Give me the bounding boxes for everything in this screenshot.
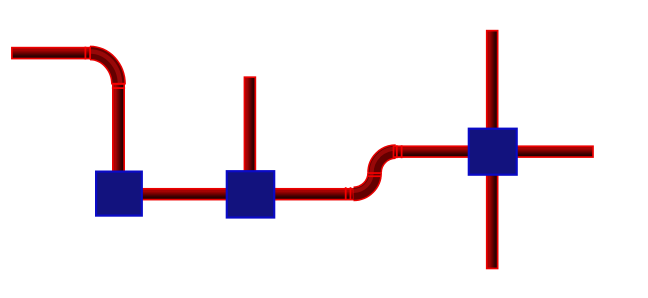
pipe P1 horizontal top-left [12,48,91,59]
joint rings J1 on pipe P1 before elbow E1 [85,47,92,60]
node N2 blue square [227,171,274,217]
joint rings J3 on pipe P5 before elbow E2 [345,187,352,200]
pipe P4 vertical stub above node N2 [244,77,255,187]
node N3 blue square [469,129,517,175]
joint rings J2 on pipe P2 below elbow E1 [112,83,125,89]
elbow E1 top-left [90,52,120,85]
pipe P6 horizontal upper through node N3 to right end [394,146,594,157]
node N1 blue square [96,172,142,216]
elbow E2 S-curve lower (east to north) [354,173,375,194]
pipe P3 horizontal between node N1 and node N2 [119,189,276,200]
joint rings J4 between elbow E2 and elbow E3 [368,172,381,177]
joint rings J5 on pipe P6 after elbow E3 [396,145,403,158]
pipe P5 horizontal from node N2 to S-curve [251,189,354,200]
elbow E3 S-curve upper (north to east) [372,149,396,173]
pipe P2 vertical below elbow E1 [113,84,124,194]
pipe P7 vertical through node N3 [487,31,498,269]
